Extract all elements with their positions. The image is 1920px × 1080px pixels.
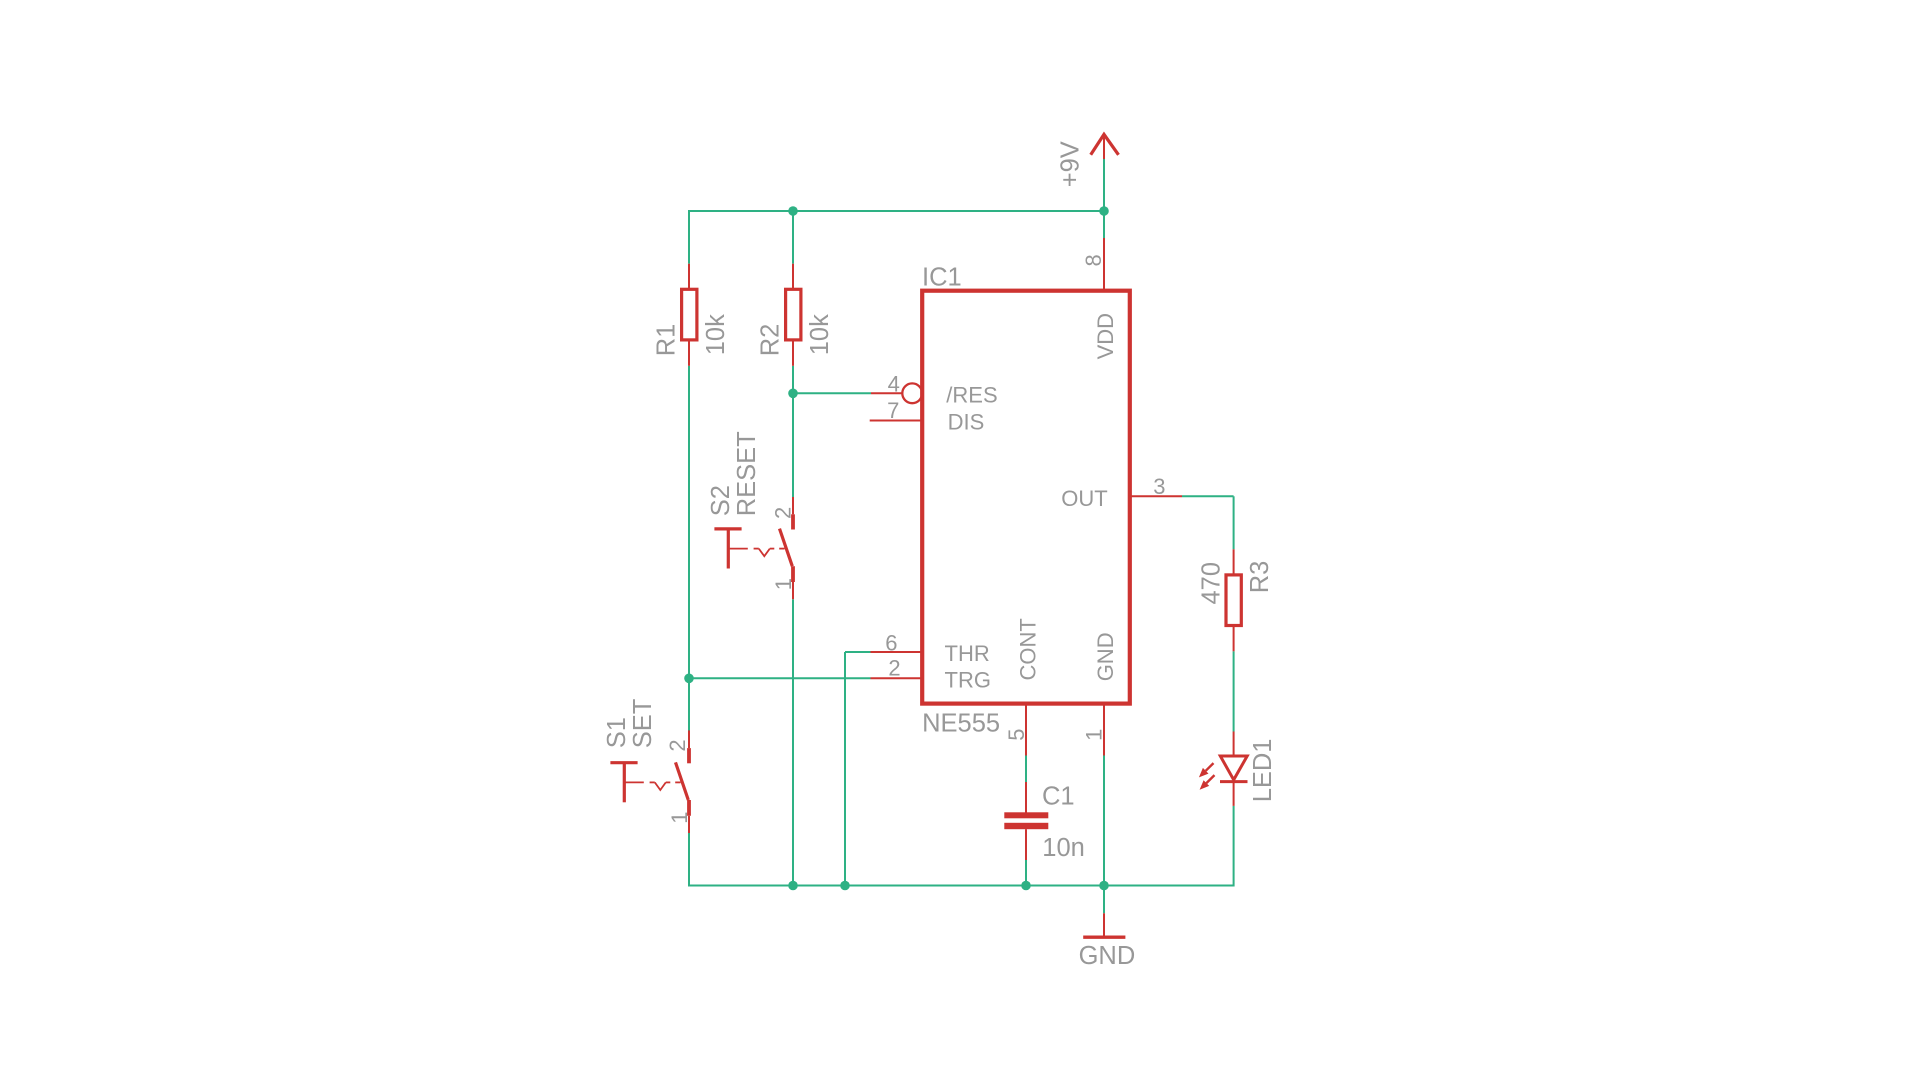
switch S2 button stem	[727, 529, 730, 569]
resistor R2 body	[786, 289, 801, 340]
LED1 triangle	[1220, 756, 1247, 780]
svg-text:R1: R1	[653, 324, 681, 357]
wire +9V stem to rail	[1103, 159, 1105, 211]
wire rail to pin 8	[1103, 211, 1105, 238]
svg-text:GND: GND	[1079, 942, 1136, 970]
resistor R3 body	[1226, 575, 1241, 626]
svg-text:CONT: CONT	[1015, 618, 1040, 680]
LED1 cathode bar	[1220, 780, 1248, 783]
svg-text:8: 8	[1081, 254, 1106, 266]
wire THR down to bottom rail	[844, 652, 846, 886]
resistor R2 bottom pin	[792, 341, 794, 366]
capacitor C1 bottom pin	[1025, 829, 1027, 860]
LED1 emission arrow 1	[1199, 768, 1209, 778]
svg-text:THR: THR	[945, 641, 990, 666]
power +9V arrow	[1091, 134, 1119, 154]
wire CONT pin to C1	[1025, 756, 1027, 783]
resistor R2 top pin	[792, 264, 794, 290]
wire TRG junction down to S1 pin2	[688, 678, 690, 731]
LED1 top pin	[1233, 732, 1235, 757]
switch S2 linkage dashes	[728, 549, 784, 557]
wire /RES horizontal	[793, 392, 871, 394]
pin 4 inversion bubble	[902, 383, 922, 403]
wire bottom rail	[689, 885, 1234, 887]
pin 3 OUT stub	[1130, 495, 1182, 497]
switch S1 pin2 contact	[687, 748, 691, 763]
switch S2 button cap	[714, 527, 741, 530]
svg-text:7: 7	[887, 398, 899, 423]
wire junction down to S2 pin2	[792, 393, 794, 497]
switch S1 linkage dashes	[624, 782, 680, 790]
pin 8 VDD stub	[1103, 238, 1105, 290]
svg-text:TRG: TRG	[945, 667, 991, 692]
wire IC GND pin to rail	[1103, 756, 1105, 886]
capacitor C1 top plate	[1004, 812, 1048, 818]
wire R1 top drop	[688, 210, 690, 264]
svg-text:10n: 10n	[1042, 834, 1085, 862]
wire C1 bottom to rail	[1025, 860, 1027, 886]
wire LED bottom to rail corner	[1233, 806, 1235, 887]
svg-text:R2: R2	[757, 324, 785, 357]
switch S1 button stem	[623, 763, 626, 803]
wire TRG horizontal	[689, 677, 871, 679]
svg-text:1: 1	[667, 812, 692, 824]
pin 1 GND stub	[1103, 704, 1105, 756]
svg-text:2: 2	[888, 656, 900, 681]
svg-text:/RES: /RES	[946, 382, 997, 407]
junction dot at THR branch/bottom rail	[840, 881, 850, 891]
wire THR horizontal stub	[845, 651, 871, 653]
capacitor C1 top pin	[1025, 782, 1027, 813]
switch S2 pin2 contact	[791, 514, 795, 529]
svg-text:2: 2	[770, 507, 795, 519]
svg-text:SET: SET	[629, 699, 657, 749]
switch S1 pin1 stub	[688, 816, 690, 833]
wire R2 top drop	[792, 211, 794, 264]
svg-text:LED1: LED1	[1249, 739, 1277, 803]
junction dot at R1/TRG/S1	[684, 674, 694, 684]
resistor R1 body	[682, 289, 697, 340]
svg-text:R3: R3	[1246, 561, 1274, 594]
pin 6 THR stub	[871, 651, 923, 653]
switch S2 pin1 contact	[791, 566, 795, 582]
junction dot at C1/bottom rail	[1021, 881, 1031, 891]
resistor R1 top pin	[688, 264, 690, 290]
svg-text:OUT: OUT	[1061, 486, 1107, 511]
resistor R1 bottom pin	[688, 341, 690, 366]
svg-text:C1: C1	[1042, 783, 1075, 811]
junction dot at R2//RES/S2	[788, 389, 798, 399]
LED1 bottom pin	[1233, 782, 1235, 806]
svg-text:NE555: NE555	[922, 709, 1000, 737]
resistor R3 bottom pin	[1233, 627, 1235, 652]
svg-text:S1: S1	[603, 717, 631, 748]
junction dot at +9V/top rail	[1099, 206, 1109, 216]
switch S1 button cap	[610, 761, 637, 764]
svg-text:10k: 10k	[702, 314, 730, 355]
junction dot at S2 branch/bottom rail	[788, 881, 798, 891]
wire R3 bottom to LED top	[1233, 651, 1235, 731]
switch S1 pin1 contact	[687, 800, 691, 816]
resistor R3 top pin	[1233, 549, 1235, 575]
switch S2 lever	[780, 529, 793, 567]
pin 7 DIS stub	[870, 420, 923, 422]
svg-text:1: 1	[771, 578, 796, 590]
pin 4 /RES stub	[871, 392, 902, 394]
svg-text:+9V: +9V	[1056, 141, 1084, 187]
svg-text:5: 5	[1004, 728, 1029, 740]
switch S1 lever	[676, 762, 689, 800]
svg-text:10k: 10k	[806, 314, 834, 355]
svg-text:DIS: DIS	[948, 409, 985, 434]
svg-text:1: 1	[1082, 729, 1107, 741]
IC IC1 NE555 timer body	[922, 291, 1130, 704]
svg-text:4: 4	[888, 371, 900, 396]
junction dot at R2/top rail	[788, 206, 798, 216]
junction dot at GND pin/bottom rail	[1099, 881, 1109, 891]
switch S2 pin2 stub	[792, 497, 794, 514]
svg-text:IC1: IC1	[922, 263, 962, 291]
svg-text:6: 6	[885, 631, 897, 656]
svg-text:GND: GND	[1093, 632, 1118, 681]
svg-text:2: 2	[665, 739, 690, 751]
switch S1 pin2 stub	[688, 730, 690, 748]
wire S2 pin1 down to bottom rail	[792, 599, 794, 885]
wire OUT to R3 corner	[1182, 495, 1234, 497]
switch S2 pin1 stub	[792, 582, 794, 599]
svg-text:3: 3	[1153, 474, 1165, 499]
pin 5 CONT stub	[1025, 704, 1027, 756]
pin 2 TRG stub	[871, 677, 923, 679]
wire rail to GND symbol	[1103, 886, 1105, 914]
wire corner down to R3 top	[1233, 496, 1235, 549]
svg-text:RESET: RESET	[733, 431, 761, 516]
wire top rail from R1 to +9V	[689, 210, 1104, 212]
wire R2 bottom to /RES junction	[792, 366, 794, 394]
wire S1 pin1 to bottom rail	[688, 833, 690, 887]
svg-text:S2: S2	[707, 485, 735, 516]
ground symbol	[1103, 913, 1105, 937]
LED1 emission arrow 2	[1200, 780, 1210, 790]
wire R1 bottom to TRG junction	[688, 366, 690, 679]
capacitor C1 bottom plate	[1004, 823, 1048, 829]
svg-text:VDD: VDD	[1093, 313, 1118, 359]
svg-text:470: 470	[1198, 562, 1226, 605]
